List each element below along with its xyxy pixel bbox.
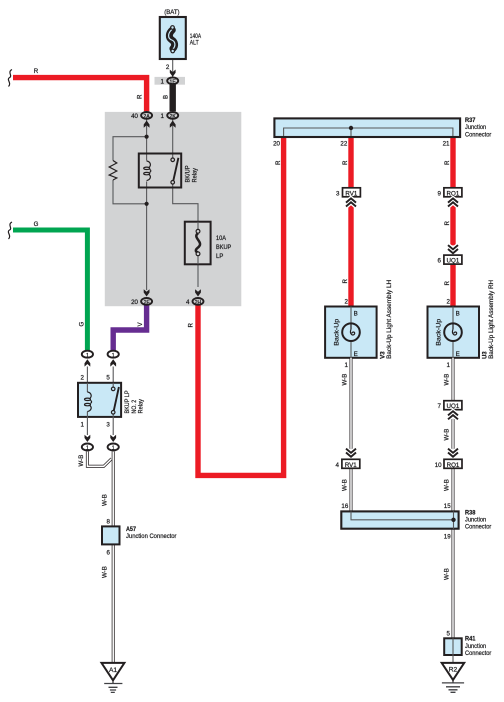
ground hatch R2 xyxy=(442,683,464,692)
arrow into 2F xyxy=(144,289,150,296)
svg-text:Connector: Connector xyxy=(465,650,491,657)
connector UQ1 pin6 box xyxy=(444,255,462,264)
svg-text:8: 8 xyxy=(107,519,111,526)
relay BKUP LP NO.2 box xyxy=(78,383,121,417)
svg-text:R41: R41 xyxy=(465,636,476,643)
connector RV1 pin3 box xyxy=(343,188,361,197)
switch contact bottom xyxy=(111,411,115,415)
relay BK/UP coil xyxy=(147,161,151,181)
svg-text:20: 20 xyxy=(273,140,280,147)
arrow into 2K xyxy=(170,121,176,128)
ground hatch A1 xyxy=(104,684,122,693)
relay BKUP LP NO.2 coil wire xyxy=(86,383,88,417)
svg-text:W-B: W-B xyxy=(102,566,109,578)
wire stub above 2F arrow xyxy=(146,287,148,290)
tick above RQ1-10 xyxy=(452,456,454,460)
svg-text:G: G xyxy=(34,221,39,228)
svg-text:Junction: Junction xyxy=(465,124,487,131)
svg-text:R2: R2 xyxy=(449,667,458,674)
wire V purple from 2F to relay connector xyxy=(113,303,146,350)
svg-text:R37: R37 xyxy=(465,117,476,124)
svg-text:Relay: Relay xyxy=(138,398,145,413)
relay BK/UP switch contact bottom xyxy=(171,181,175,185)
wire from fuse 140A to connector 1E xyxy=(172,58,174,77)
chevron pair down above UQ1 xyxy=(448,245,458,253)
svg-text:W-B: W-B xyxy=(102,494,109,506)
switch blade xyxy=(114,387,119,411)
relay BK/UP switch blade xyxy=(173,158,178,181)
tick below UQ1-7 xyxy=(452,409,454,412)
svg-text:19: 19 xyxy=(444,534,451,541)
relay BKUP LP NO.2 switch wire xyxy=(112,383,114,417)
svg-text:3: 3 xyxy=(106,422,110,429)
junction connector R37 bar xyxy=(274,118,460,137)
svg-text:E: E xyxy=(354,351,358,358)
node: R37 internal junction dot xyxy=(349,126,353,130)
arrow into relay conn right xyxy=(110,359,116,366)
connector RQ1 pin10 box xyxy=(444,459,462,468)
connector RQ1 pin9 box xyxy=(444,188,462,197)
svg-text:2: 2 xyxy=(447,299,451,306)
svg-text:6: 6 xyxy=(438,258,442,265)
svg-text:2: 2 xyxy=(345,299,349,306)
gray box internal wire: 2K leg to relay switch xyxy=(172,120,174,159)
node: junction dot below relay xyxy=(145,202,149,206)
connector 2K xyxy=(167,112,178,119)
resistor (coil shunt) xyxy=(109,161,117,181)
svg-text:R: R xyxy=(444,160,451,165)
wire W-B main down to ground A1 xyxy=(112,452,115,663)
svg-text:21: 21 xyxy=(443,140,450,147)
svg-text:B: B xyxy=(456,311,460,318)
svg-text:R38: R38 xyxy=(465,509,476,516)
junction connector R38 bar xyxy=(341,511,458,528)
svg-text:R: R xyxy=(188,323,195,328)
svg-text:Back-Up: Back-Up xyxy=(435,318,442,346)
svg-text:UQ1: UQ1 xyxy=(447,258,460,265)
svg-text:10A: 10A xyxy=(216,235,227,242)
connector 1 (green) xyxy=(82,351,93,358)
svg-text:Back-Up Light Assembly RH: Back-Up Light Assembly RH xyxy=(488,280,495,359)
back-up light assembly RH box U3 xyxy=(428,307,480,358)
junction connector R41 box xyxy=(444,638,462,655)
wire R from R37 pin 21 down to back-up light RH xyxy=(450,138,455,307)
arrow into lower conn right xyxy=(110,435,116,442)
chevron pair down above RQ1-10 xyxy=(448,449,458,457)
svg-text:R: R xyxy=(342,160,349,165)
svg-text:W-B: W-B xyxy=(443,429,450,441)
svg-text:Relay: Relay xyxy=(192,167,199,182)
svg-text:B: B xyxy=(163,95,170,99)
svg-text:W-B: W-B xyxy=(443,479,450,491)
svg-text:16: 16 xyxy=(341,503,348,510)
wire R41 to ground R2 xyxy=(452,655,454,663)
svg-text:E: E xyxy=(456,351,460,358)
wires relay to lower connectors xyxy=(87,417,113,435)
svg-text:Back-Up Light Assembly LH: Back-Up Light Assembly LH xyxy=(386,280,393,359)
wire B thick black 1E to 2K xyxy=(169,84,175,111)
RH bulb xyxy=(444,323,462,341)
svg-text:1: 1 xyxy=(86,353,89,359)
svg-text:R: R xyxy=(444,221,451,226)
svg-text:7: 7 xyxy=(438,403,442,410)
resistor branch wires xyxy=(113,137,147,204)
fuse 10A element xyxy=(196,233,200,252)
arrow into lower conn left xyxy=(85,435,91,442)
connector 1 lower right xyxy=(108,444,119,451)
relay BK/UP switch contact top xyxy=(171,158,175,162)
arrow into relay conn left xyxy=(85,359,91,366)
gray box internal wire: 10A fuse to 2H xyxy=(197,264,199,287)
tick above RV1-4 xyxy=(350,456,352,460)
relay BKUP LP NO.2 coil xyxy=(87,392,91,412)
back-up light assembly LH box V3 xyxy=(325,307,377,358)
arrow into 2H xyxy=(195,289,201,296)
svg-text:W-B: W-B xyxy=(341,374,348,386)
chevron pair up below UQ1-7 xyxy=(448,411,458,419)
chevron pair up below RQ1 xyxy=(448,198,458,206)
svg-text:3: 3 xyxy=(336,190,340,197)
junction connector A57 box xyxy=(102,526,120,544)
node: R38 internal junction dot xyxy=(451,518,455,522)
RH lamp internal wire xyxy=(452,307,454,358)
svg-text:6: 6 xyxy=(107,550,111,557)
R37 internal wire xyxy=(284,128,453,136)
connector 1 (violet) xyxy=(108,351,119,358)
svg-text:2K: 2K xyxy=(170,114,177,120)
svg-text:RV1: RV1 xyxy=(345,462,357,469)
connector 1E xyxy=(167,77,178,84)
fuse 10A BKUP LP box xyxy=(185,222,211,265)
svg-text:W-B: W-B xyxy=(443,374,450,386)
gray box internal wire: switch to 10A fuse xyxy=(173,184,198,222)
svg-text:RQ1: RQ1 xyxy=(447,462,460,469)
svg-text:ALT: ALT xyxy=(190,39,199,46)
svg-text:4: 4 xyxy=(335,462,339,469)
svg-text:10: 10 xyxy=(435,462,442,469)
svg-text:Connector: Connector xyxy=(465,524,491,531)
svg-text:4: 4 xyxy=(186,299,190,306)
svg-text:2F: 2F xyxy=(144,300,150,306)
svg-text:1: 1 xyxy=(345,362,349,369)
svg-text:5: 5 xyxy=(106,374,110,381)
svg-text:Connector: Connector xyxy=(465,131,491,138)
wire G horizontal from left xyxy=(13,230,87,350)
svg-text:1: 1 xyxy=(447,362,451,369)
svg-text:1: 1 xyxy=(161,78,165,85)
fuse 140A ALT box xyxy=(160,17,186,59)
svg-text:A1: A1 xyxy=(109,667,117,674)
relay block gray background xyxy=(105,112,242,306)
svg-text:2A: 2A xyxy=(143,114,150,120)
svg-text:40: 40 xyxy=(131,113,138,120)
wires connectors to relay xyxy=(87,367,113,384)
svg-text:W-B: W-B xyxy=(78,455,85,467)
ground stem R2 xyxy=(452,680,454,683)
wire R from R37 pin 22 down to back-up light LH xyxy=(348,138,353,307)
chevron pair up below RV1 xyxy=(346,198,356,206)
svg-text:2H: 2H xyxy=(195,300,202,306)
svg-text:2: 2 xyxy=(81,374,85,381)
svg-text:(BAT): (BAT) xyxy=(164,9,179,16)
svg-text:W-B: W-B xyxy=(341,479,348,491)
connector 2A xyxy=(141,112,152,119)
svg-text:BK/UP: BK/UP xyxy=(184,166,191,183)
wire break squiggle left end (R) xyxy=(8,70,12,87)
node: junction dot above relay xyxy=(145,135,149,139)
R41 internal wire xyxy=(452,638,454,655)
svg-text:Junction: Junction xyxy=(465,517,487,524)
arrow into 1E xyxy=(170,70,176,77)
svg-text:Junction Connector: Junction Connector xyxy=(126,533,177,540)
connector 2H xyxy=(193,298,204,305)
svg-text:1E: 1E xyxy=(170,79,177,85)
wire R from 2H down, right, up to R37 pin 20 (U route) xyxy=(198,138,284,476)
connector 2F xyxy=(141,298,152,305)
wire break squiggle left end (G) xyxy=(8,222,12,239)
svg-text:G: G xyxy=(78,322,85,327)
gray band behind connector 1E xyxy=(155,77,186,85)
connector UQ1 pin7 box xyxy=(444,401,462,410)
svg-text:LP: LP xyxy=(216,253,223,260)
svg-text:R: R xyxy=(34,68,39,75)
svg-text:B: B xyxy=(354,311,358,318)
svg-text:15: 15 xyxy=(444,503,451,510)
svg-text:R: R xyxy=(275,160,282,165)
connector 1 lower left xyxy=(82,444,93,451)
wire W-B RH lamp down to R41 xyxy=(452,358,455,639)
svg-text:Junction: Junction xyxy=(465,643,487,650)
svg-text:1: 1 xyxy=(86,446,89,452)
svg-text:2: 2 xyxy=(166,64,170,71)
svg-text:Back-Up: Back-Up xyxy=(333,318,340,346)
LH bulb xyxy=(342,323,360,341)
svg-text:9: 9 xyxy=(438,190,442,197)
wire W-B merge left into right xyxy=(87,452,111,467)
gray box internal wire: 2A leg through relay coil column xyxy=(146,120,148,288)
ground triangle R2 xyxy=(442,663,465,680)
svg-text:W-B: W-B xyxy=(443,568,450,580)
fusible link 140A ALT element xyxy=(169,30,174,49)
svg-text:R: R xyxy=(444,281,451,286)
svg-text:R: R xyxy=(137,94,144,99)
svg-text:1: 1 xyxy=(112,353,115,359)
svg-text:R: R xyxy=(342,279,349,284)
ground triangle A1 xyxy=(102,663,125,680)
svg-text:22: 22 xyxy=(340,140,347,147)
ground stem A1 xyxy=(112,680,114,683)
relay BK/UP box outline xyxy=(139,154,181,188)
wire W-B LH lamp down to R38 pin16 xyxy=(350,358,353,512)
svg-text:20: 20 xyxy=(131,299,138,306)
LH lamp internal wire xyxy=(350,307,352,358)
tick below RQ1-9 xyxy=(452,196,454,199)
svg-text:1: 1 xyxy=(161,113,165,120)
svg-text:5: 5 xyxy=(447,631,451,638)
wire R battery feed horizontal from left xyxy=(13,78,147,112)
switch contact top xyxy=(111,387,115,391)
R38 internal wire xyxy=(351,511,454,528)
connector RV1 pin4 box xyxy=(342,459,360,468)
svg-text:1: 1 xyxy=(112,446,115,452)
svg-text:1: 1 xyxy=(81,422,85,429)
chevron pair down above RV1-4 xyxy=(346,449,356,457)
svg-text:BKUP: BKUP xyxy=(216,244,231,251)
arrow into 2A xyxy=(144,121,150,128)
